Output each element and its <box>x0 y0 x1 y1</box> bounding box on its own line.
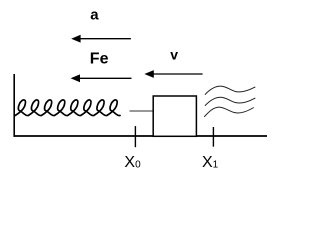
svg-text:v: v <box>170 46 178 62</box>
velocity arrow <box>144 70 202 78</box>
wall (left vertical line) <box>13 74 15 137</box>
svg-text:X1: X1 <box>202 154 219 171</box>
spring-to-block connector (gray) <box>130 110 154 112</box>
tick X0 <box>134 126 136 147</box>
wave 1 (top wavy line) <box>205 86 255 95</box>
spring (cursive eeeeeeee) <box>15 100 120 116</box>
wave 3 (bottom wavy line) <box>204 107 254 117</box>
svg-text:Fe: Fe <box>90 51 109 68</box>
acceleration arrow <box>71 35 131 43</box>
wave 2 (middle wavy line) <box>205 97 255 106</box>
svg-text:a: a <box>90 6 99 23</box>
svg-text:X0: X0 <box>124 154 141 171</box>
tick X1 <box>212 127 214 147</box>
block (mass) <box>153 96 196 136</box>
ground line <box>14 135 268 137</box>
friction force arrow <box>71 74 132 82</box>
